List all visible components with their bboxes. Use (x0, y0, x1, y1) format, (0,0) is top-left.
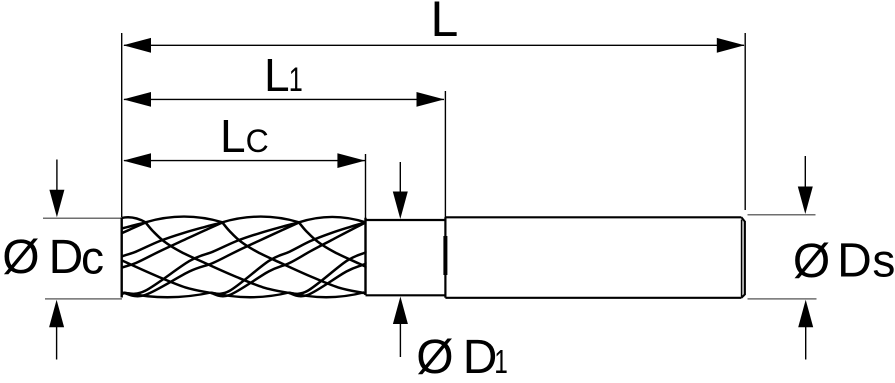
svg-text:L: L (220, 110, 246, 162)
svg-text:C: C (246, 123, 269, 159)
flute-neck junction line (364, 218, 366, 295)
dimension line Lc (124, 160, 365, 162)
arrowhead L right (717, 38, 745, 53)
arrowhead Lc right (337, 153, 365, 168)
Dc top arrow line (56, 160, 58, 193)
neck bottom edge (366, 294, 446, 296)
svg-text:1: 1 (494, 345, 508, 381)
shank right end edge (744, 221, 746, 295)
flute back edge x=299 to x=441 (299, 223, 441, 294)
arrowhead L left (123, 38, 151, 53)
Ds top arrow line (804, 156, 806, 188)
flute front heel edge (twin) x=124 to x=299 (124, 223, 299, 297)
svg-text:D: D (49, 231, 84, 284)
arrowhead Lc left (123, 153, 151, 168)
Ds bottom extension line (748, 298, 817, 300)
flute front cutting edge x=124 to x=299 (124, 223, 299, 294)
svg-text:s: s (872, 235, 895, 287)
neck-shank junction line (444, 217, 446, 297)
flute front heel edge (twin) x=-31 to x=145.6 (0, 223, 146, 297)
arrowhead L1 right (417, 92, 445, 107)
arrowhead L1 left (123, 92, 151, 107)
Ds bottom arrow line (805, 326, 807, 360)
svg-text:D: D (463, 331, 498, 383)
witness line L right end (744, 33, 746, 210)
Ds top arrowhead (798, 187, 813, 215)
cutter flute section bottom scalloped silhouette (122, 293, 366, 298)
D1 bottom arrowhead (393, 297, 408, 325)
D1 top arrowhead (393, 192, 408, 220)
Dc bottom extension line (45, 298, 122, 300)
shank chamfer inner line (741, 220, 743, 297)
svg-text:L: L (264, 49, 290, 101)
Dc top arrowhead (49, 190, 64, 218)
svg-text:D: D (837, 235, 872, 288)
flute front cutting edge x=289 to x=443 (289, 223, 443, 294)
Dc bottom arrowhead (49, 300, 64, 328)
Dc bottom arrow line (56, 326, 58, 360)
D1 bottom arrow line (399, 323, 401, 358)
witness line L1 end (444, 91, 446, 218)
flute front cutting edge x=-31 to x=145.6 (0, 223, 146, 294)
cutter flute section left edge (120, 218, 122, 298)
svg-text:Ø: Ø (793, 235, 830, 288)
flute back edge x=222.4 to x=363.5 (222, 223, 363, 294)
flute front heel edge (twin) x=289 to x=443 (289, 223, 443, 297)
svg-text:c: c (81, 232, 104, 284)
Ds bottom arrowhead (798, 300, 813, 328)
svg-text:1: 1 (289, 62, 303, 100)
flute back edge x=68.6 to x=211 (69, 223, 211, 294)
flute front heel edge (twin) x=211 to x=365.5 (211, 223, 366, 297)
dimension line L1 (124, 98, 444, 100)
witness line left (tool tip) (121, 33, 123, 217)
flute back edge x=145.6 to x=289 (146, 223, 289, 294)
shank top edge (445, 216, 741, 218)
svg-text:L: L (431, 0, 459, 47)
D1 top arrow line (399, 162, 401, 194)
neck top edge (366, 219, 446, 221)
shank right chamfer top (741, 217, 744, 221)
cutter flute section top scalloped silhouette (122, 217, 366, 223)
svg-text:Ø: Ø (2, 231, 39, 284)
witness line Lc end (365, 154, 367, 218)
flute back edge x=-9 to x=124 (0, 223, 124, 294)
shank bottom edge (445, 297, 741, 299)
neck-shank junction bold segment (443, 236, 447, 275)
flute front cutting edge x=211 to x=365.5 (211, 223, 366, 294)
flute front cutting edge x=46.5 to x=222.4 (47, 223, 223, 294)
dimension line L (124, 44, 744, 46)
flute front heel edge (twin) x=46.5 to x=222.4 (47, 223, 223, 297)
shank right chamfer bottom (741, 295, 744, 298)
svg-text:Ø: Ø (416, 331, 453, 383)
Dc top extension line (43, 217, 122, 219)
Ds top extension line (748, 214, 816, 216)
